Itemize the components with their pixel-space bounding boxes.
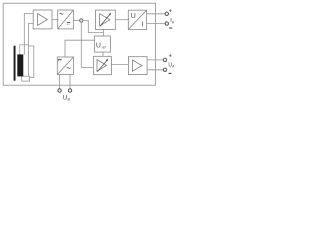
DC/AC symbol AC (bottom-right)	[67, 67, 71, 68]
wire N1 to converter B	[52, 18, 58, 20]
amplifier N2 adjust arrow	[100, 14, 110, 26]
amplifier N1 box	[33, 10, 52, 29]
converter B symbol DC (bottom-right)	[67, 22, 70, 24]
tick N2 bottom to Uref	[102, 29, 104, 36]
amplifier N3 triangle	[97, 60, 107, 72]
svg-text:ref: ref	[102, 45, 106, 49]
node K1 junction circle	[80, 19, 83, 22]
adjustable amplifier N3 box	[93, 56, 111, 74]
supply leg left	[59, 75, 61, 89]
reference source Uref box	[95, 36, 111, 52]
converter B diagonal	[58, 10, 74, 29]
U/I converter box	[128, 10, 146, 29]
svg-text:+: +	[169, 54, 172, 60]
supply terminal circle left	[58, 89, 61, 92]
wire converter B to node K1	[74, 20, 80, 22]
wire N4 to terminal UA-	[147, 69, 163, 71]
DC/AC power converter diagonal	[57, 57, 73, 75]
supply terminal circle right	[68, 89, 71, 92]
wire input 2 to amplifier N1	[29, 23, 34, 76]
wire U/I to terminal +	[147, 13, 166, 15]
label IA minus	[169, 27, 172, 29]
U/I converter diagonal	[128, 10, 146, 29]
terminal circle IA+	[165, 12, 168, 15]
wire branch to probe electrode	[20, 45, 29, 55]
probe thin electrode bar	[14, 46, 16, 81]
wire N2 to U/I converter	[115, 19, 128, 21]
svg-text:U: U	[96, 42, 101, 49]
svg-text:U: U	[63, 96, 67, 102]
DC/AC power converter box	[57, 57, 73, 75]
svg-text:U: U	[131, 11, 136, 20]
probe connector box	[22, 76, 30, 81]
adjustable amplifier N2 box	[96, 10, 116, 29]
output amplifier N4 box	[128, 57, 147, 75]
svg-text:I: I	[142, 20, 144, 29]
terminal circle UA+	[163, 58, 166, 61]
wire input 1 to amplifier N1	[24, 14, 33, 55]
amplifier N4 triangle	[132, 60, 142, 71]
DC/AC symbol DC (top-left)	[58, 58, 62, 60]
wire jog to probe connector box	[29, 46, 34, 77]
converter B box (AC/DC)	[58, 10, 74, 29]
supply leg right	[69, 75, 71, 89]
wire U/I to terminal -	[147, 23, 166, 25]
probe thick electrode bar	[17, 54, 23, 76]
amplifier N2 triangle	[100, 14, 110, 26]
wire node K1 down to amplifier N3	[81, 22, 93, 67]
wire node K1 right then down to feedback	[83, 21, 104, 33]
converter B symbol AC (top-left)	[60, 13, 64, 14]
wire N3 to output amplifier N4	[111, 64, 128, 66]
label UA minus	[169, 72, 172, 74]
svg-text:+: +	[169, 8, 172, 14]
housing border	[3, 3, 155, 85]
tick Uref to amplifier N3	[102, 52, 104, 56]
terminal circle UA-	[163, 68, 166, 71]
wire N4 to terminal UA+	[147, 59, 163, 61]
amplifier N3 adjust arrow	[97, 60, 107, 72]
wire DC/AC converter to Uref	[65, 40, 95, 57]
amplifier N1 triangle	[38, 14, 48, 26]
terminal circle IA-	[165, 22, 168, 25]
